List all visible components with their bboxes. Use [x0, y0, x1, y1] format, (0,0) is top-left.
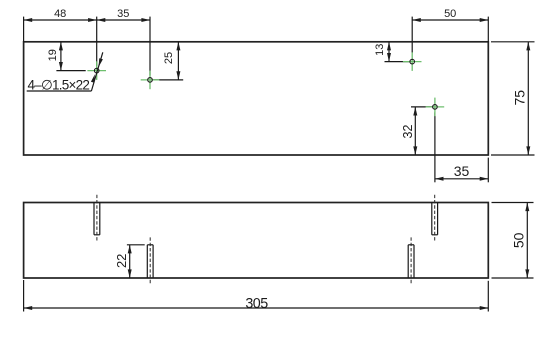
slot A centerline: [96, 195, 98, 242]
hole 4 crosshair: [426, 98, 445, 117]
svg-text:35: 35: [454, 163, 470, 179]
slot B: [147, 245, 153, 278]
dimension 305: [24, 280, 489, 312]
svg-text:22: 22: [114, 254, 129, 268]
svg-text:32: 32: [401, 125, 415, 139]
slot D centerline: [410, 237, 412, 284]
extension line hole 2: [149, 17, 151, 76]
hole 4: [433, 105, 438, 110]
svg-text:75: 75: [511, 90, 527, 106]
leader line 4-dia1.5x22: [27, 52, 103, 91]
dimension 35 bottom right: [435, 158, 488, 183]
hole 3 crosshair: [403, 52, 422, 71]
svg-text:50: 50: [444, 8, 456, 20]
svg-text:50: 50: [510, 232, 526, 248]
svg-text:19: 19: [47, 49, 59, 61]
hole 1 crosshair: [87, 61, 106, 80]
front view part outline: [24, 203, 489, 279]
dimension 50 front: [492, 203, 534, 279]
dimension 35: [97, 8, 150, 22]
svg-text:35: 35: [117, 8, 129, 20]
slot C: [432, 203, 438, 235]
dimension 32: [401, 107, 432, 155]
slot B centerline: [149, 237, 151, 284]
svg-text:25: 25: [163, 52, 175, 64]
dimension 13: [374, 42, 410, 62]
svg-text:4–∅1.5×22: 4–∅1.5×22: [28, 77, 90, 92]
dimension 50 top: [412, 8, 488, 53]
dimension 19: [47, 42, 86, 71]
dimension 48: [24, 8, 97, 42]
top view part outline: [24, 42, 489, 155]
hole 2: [148, 78, 153, 83]
dimension 25: [153, 42, 183, 80]
extension line hole 1: [96, 17, 98, 67]
slot D: [408, 245, 414, 278]
dimension 75: [491, 42, 535, 155]
svg-text:48: 48: [54, 8, 66, 20]
svg-text:305: 305: [245, 296, 268, 312]
hole 3: [410, 59, 415, 64]
hole 1: [94, 68, 99, 73]
hole 2 crosshair: [141, 71, 160, 90]
dimension 22: [114, 245, 145, 278]
svg-text:13: 13: [374, 44, 386, 56]
slot A: [94, 203, 100, 235]
extension line hole 4 down: [434, 112, 436, 182]
slot C centerline: [434, 195, 436, 242]
